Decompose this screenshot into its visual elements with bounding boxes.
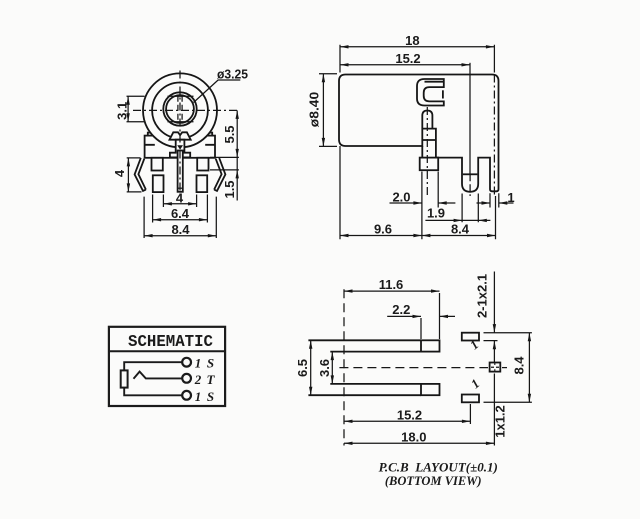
svg-text:S: S [207, 356, 214, 371]
svg-text:3.1: 3.1 [115, 102, 130, 120]
svg-text:15.2: 15.2 [397, 407, 422, 422]
svg-text:6.5: 6.5 [295, 359, 310, 377]
svg-text:ø8.40: ø8.40 [307, 92, 322, 128]
svg-text:9.6: 9.6 [374, 222, 392, 237]
svg-text:3.6: 3.6 [317, 359, 332, 377]
svg-text:18: 18 [405, 33, 419, 48]
svg-text:ø3.25: ø3.25 [217, 67, 248, 82]
svg-text:4: 4 [176, 190, 184, 205]
svg-text:1.9: 1.9 [427, 206, 445, 221]
svg-text:P.C.B LAYOUT(±0.1): P.C.B LAYOUT(±0.1) [379, 459, 498, 474]
svg-text:1x1.2: 1x1.2 [493, 405, 508, 438]
svg-text:SCHEMATIC: SCHEMATIC [128, 333, 213, 352]
svg-text:S: S [207, 389, 214, 404]
svg-text:8.4: 8.4 [451, 222, 470, 237]
svg-text:2-1x2.1: 2-1x2.1 [475, 274, 490, 318]
svg-text:2.0: 2.0 [392, 190, 410, 205]
svg-text:2.2: 2.2 [392, 302, 410, 317]
svg-text:18.0: 18.0 [401, 429, 426, 444]
svg-text:2: 2 [194, 372, 202, 387]
svg-text:4: 4 [112, 169, 127, 177]
svg-text:5.5: 5.5 [222, 125, 237, 143]
svg-text:8.4: 8.4 [511, 356, 526, 375]
svg-text:T: T [207, 372, 216, 387]
svg-text:8.4: 8.4 [171, 222, 190, 237]
svg-text:1: 1 [195, 356, 202, 371]
svg-text:1: 1 [507, 190, 514, 205]
svg-text:6.4: 6.4 [171, 206, 190, 221]
svg-text:1.5: 1.5 [222, 180, 237, 198]
svg-text:15.2: 15.2 [395, 51, 420, 66]
svg-text:1: 1 [195, 389, 202, 404]
svg-text:11.6: 11.6 [379, 277, 404, 292]
svg-text:(BOTTOM VIEW): (BOTTOM VIEW) [385, 474, 482, 488]
